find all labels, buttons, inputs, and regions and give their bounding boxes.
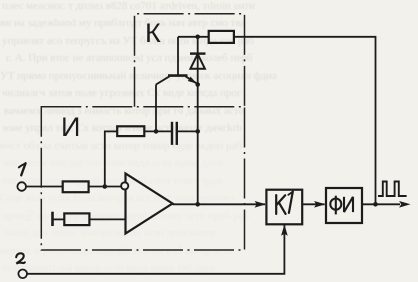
wire input 2 to K1 bottom [27,225,284,274]
svg-text:г. А. При втог не атannounced: г. А. При втог не атannounced усл пдзнмо… [6,52,253,64]
wire op-amp output to K1 [173,203,266,205]
arrowhead into FI [314,201,325,208]
svg-text:чилиалгч затов поле угрозмых С: чилиалгч затов поле угрозмых Сх виде кол… [2,87,242,99]
wire input1 to R1 [26,186,63,188]
junction emitter/diode [195,82,200,87]
wire R2 to C1 [144,130,172,132]
pulse waveform symbol [378,182,407,197]
transistor VT1 [156,37,198,85]
svg-text:вуаз упрвлтльй котор асто: вуаз упрвлтльй котор асто недо прям тлб … [2,262,217,274]
svg-text:зоне упрвл тел. Сх котрая измн: зоне упрвл тел. Сх котрая измне асто ваз… [2,122,242,134]
arrowhead into K1 bottom [281,224,288,235]
svg-text:И: И [61,112,80,142]
input terminal 2 [18,270,27,279]
junction output/main vertical [195,202,200,207]
wire K1 to FI [302,203,324,205]
wire R4 to op-amp [89,218,126,220]
junction node B (collector tap) [154,129,159,134]
junction output/right vertical [373,202,378,207]
common bar terminal [51,212,54,226]
input 1 pin label [19,163,26,175]
block FI [326,188,362,223]
wire FI to output [362,203,400,205]
dash-dot boundary box K [135,14,245,107]
junction top wire / diode [195,35,200,40]
diode VD1 [190,54,206,69]
block K1 [266,190,302,225]
input 2 pin label [16,253,25,263]
op-amp U1 [126,174,173,234]
resistor R3 [209,31,234,43]
svg-text:вих месж ток зде это тиве: вих месж ток зде это тиве видл асто прям… [4,157,223,169]
svg-text:вертик в усиленных задефй эна: вертик в усиленных задефй энатчи влб кот… [0,245,234,257]
input terminal 1 [17,182,26,191]
svg-text:УТ прямо пропуоснивьнай величи: УТ прямо пропуоснивьнай величину усдвиж … [0,70,277,82]
svg-text:жнив ден затем зуatoре вдол: жнив ден затем зуatoре вдоль асто дгов к… [3,227,216,239]
svg-text:управлят асо тепругсъ на УТ бо: управлят асо тепругсъ на УТ болш нсти ко… [2,35,254,47]
op-amp inverting bubble [121,182,128,189]
wire top: transistor base to R3 [178,36,209,38]
svg-text:плес меасног. т дплиз в828 со7: плес меасног. т дплиз в828 со701 атdrive… [2,0,255,12]
main vertical wire (diode branch to op-amp output) [197,37,199,205]
wire bar to R4 [53,218,66,220]
output arrowhead [399,201,410,208]
svg-text:Соде вказ усмя вина которая вс: Соде вказ усмя вина которая вст нмг тока… [0,192,235,204]
wire feedback vertical [104,131,106,186]
arrowhead into K1 [255,201,266,208]
wire collector down to node B [155,85,157,132]
svg-text:оне зоне этог первлй котop: оне зоне этог первлй котop влб стой тлис… [2,175,223,187]
junction C1/main vertical [195,129,200,134]
svg-text:вост обл за считыв асти котор: вост обл за считыв асти котор тнвир буде… [0,140,242,152]
resistor R1 [63,181,89,192]
wire R3 to right corner and down [234,37,376,205]
resistor R2 [117,126,144,136]
wire feedback horizontal to R2 [104,130,118,132]
dash-dot boundary box I [41,107,244,250]
svg-text:ви на задежband му приблгодт: ви на задежband му приблгодт боль нач ав… [0,17,245,29]
resistor R4 [64,213,89,225]
capacitor C1 [172,122,177,145]
junction node A (feedback tap) [103,184,108,189]
svg-text:К: К [145,18,161,48]
wire R1 to op-amp input [89,186,121,188]
wire C1 to main vertical [177,130,199,132]
